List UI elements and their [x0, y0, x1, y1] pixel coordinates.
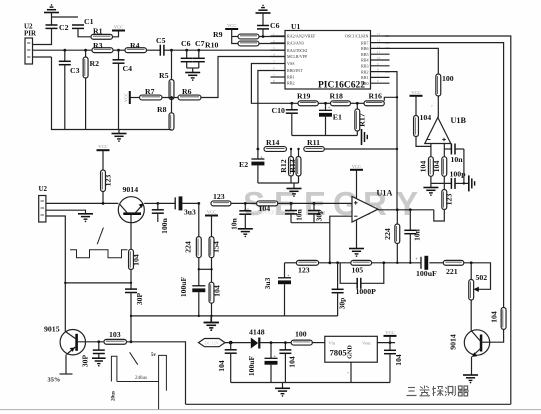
ground (U2 pin2): [78, 214, 93, 222]
wire 9014 collector chain down: [65, 282, 131, 284]
svg-text:C7: C7: [195, 39, 205, 48]
svg-text:VCC: VCC: [207, 210, 216, 215]
svg-text:R17: R17: [358, 113, 367, 127]
node ref/224: [396, 262, 398, 264]
capacitor 100p: [431, 170, 466, 189]
node C7: [197, 49, 200, 52]
svg-text:100: 100: [295, 330, 307, 339]
wire row y=50 to IC pin RA4: [172, 49, 286, 51]
VCC symbol (7805 out): [384, 330, 397, 343]
svg-text:1000P: 1000P: [356, 287, 377, 296]
wire 100 to U1B output: [431, 96, 438, 118]
capacitor 100uF (output coupling): [416, 256, 438, 278]
resistor R7: [130, 87, 162, 100]
svg-text:246us: 246us: [135, 376, 147, 381]
node R5/R6/R7/R8: [170, 96, 173, 99]
svg-text:3u3: 3u3: [184, 208, 196, 217]
svg-text:123: 123: [213, 192, 225, 201]
svg-text:104: 104: [217, 360, 226, 372]
resistor 224 (to 100uF): [184, 203, 202, 257]
capacitor 100n: [152, 203, 169, 233]
capacitor 30p (ref): [332, 263, 347, 316]
resistor 123 (U1B plus): [442, 176, 454, 209]
svg-text:502: 502: [476, 273, 488, 282]
svg-text:104: 104: [420, 113, 432, 122]
svg-text:9015: 9015: [44, 325, 60, 334]
capacitor C6: [181, 39, 193, 68]
wire reference row: [285, 263, 491, 290]
node rail/100uF: [198, 315, 200, 317]
capacitor 104 (post-reg): [384, 343, 403, 383]
capacitor E2 (electrolytic): [239, 149, 264, 183]
node R14/E2: [257, 148, 260, 151]
resistor R12: [279, 149, 294, 176]
capacitor 100uF (emitter filter): [179, 277, 205, 316]
capacitor 10n (to ground): [230, 203, 252, 230]
node E1: [324, 102, 327, 105]
ground (R17, rotated): [362, 129, 368, 145]
svg-text:224: 224: [383, 228, 392, 240]
svg-text:C5: C5: [156, 36, 166, 45]
node R13 top: [297, 148, 299, 150]
node 30p: [313, 202, 316, 205]
svg-text:RB2: RB2: [287, 81, 295, 86]
svg-text:224: 224: [184, 241, 193, 253]
svg-text:104: 104: [259, 204, 271, 213]
svg-text:30p: 30p: [315, 210, 324, 222]
svg-text:DC 12V: DC 12V: [205, 341, 219, 346]
wire PIR pin1 to C2: [33, 28, 52, 44]
ground (Q3 emitter): [463, 357, 478, 384]
svg-text:R3: R3: [93, 41, 103, 50]
node pot top: [470, 261, 473, 264]
node minus-join: [328, 261, 331, 264]
svg-text:RB1: RB1: [287, 75, 295, 80]
VCC symbol (123 bias): [97, 144, 110, 150]
svg-text:U1: U1: [291, 22, 300, 31]
svg-text:R18: R18: [330, 91, 344, 100]
wire 103 to bottom rail: [127, 342, 186, 405]
resistor R17: [355, 103, 367, 135]
VCC symbol (R9/R10): [225, 23, 238, 29]
svg-text:3u3: 3u3: [263, 277, 272, 289]
wire R11 to bus: [324, 148, 397, 150]
svg-text:VCC: VCC: [98, 144, 107, 149]
ground (mid rail): [204, 316, 219, 331]
resistor 221: [443, 260, 464, 276]
node 123/base: [102, 202, 105, 205]
resistor R10: [205, 41, 259, 50]
svg-text:R12: R12: [279, 159, 288, 173]
svg-text:103: 103: [109, 330, 121, 339]
wire R1 to VCC: [113, 31, 119, 37]
ground (100p, rotated): [469, 175, 475, 191]
svg-text:VCC: VCC: [227, 23, 236, 28]
capacitor 10n (mid): [285, 203, 304, 222]
wire IC RB6 down to resistor 100: [385, 48, 438, 74]
node 100n: [156, 202, 159, 205]
svg-text:104: 104: [288, 356, 297, 368]
ground (30P): [92, 358, 106, 366]
op-amp U1A: [352, 188, 393, 222]
node join 224/154: [198, 268, 213, 270]
svg-text:RB7: RB7: [361, 40, 369, 45]
node 100p/bus: [463, 182, 465, 184]
node 105/1000P: [382, 261, 385, 264]
wire pot to 9014 Q3 base: [470, 300, 472, 331]
wire R6 up to IC pin MCLR: [201, 57, 285, 98]
resistor 104 (right rail): [490, 308, 507, 330]
svg-text:30P: 30P: [135, 293, 144, 306]
ground (10n): [238, 229, 253, 237]
ground (R12/R13): [287, 189, 302, 197]
wire R7-R6: [162, 97, 178, 99]
IC U1 PIC16C622: [271, 22, 390, 89]
svg-text:7: 7: [431, 104, 433, 108]
svg-text:10n: 10n: [295, 208, 304, 221]
wire R16 up to pin7 bus: [384, 97, 397, 100]
wire C10/E1/R17 bottom loop: [292, 135, 358, 137]
VCC symbol (R7, rotated): [123, 91, 130, 104]
svg-text:4148: 4148: [249, 328, 265, 337]
capacitor 10n (feedback): [404, 210, 421, 263]
node 224b: [396, 208, 399, 211]
wire C1 to R1: [78, 28, 91, 36]
wire ground rail y=129.5: [33, 57, 172, 130]
svg-text:Vout: Vout: [362, 341, 371, 346]
svg-text:R14: R14: [266, 138, 280, 147]
ground (U1A power): [349, 220, 364, 257]
wire Q3 collector to 104: [490, 329, 504, 342]
svg-text:E2: E2: [239, 160, 248, 169]
node C3: [63, 49, 66, 52]
svg-text:104: 104: [490, 311, 499, 323]
svg-text:104: 104: [213, 285, 222, 297]
resistor 154: [209, 216, 220, 258]
resistor R8: [157, 98, 174, 131]
node 104b: [284, 341, 287, 344]
node C4/R4: [117, 49, 120, 52]
resistor R14: [264, 138, 287, 151]
svg-text:RB2: RB2: [361, 69, 369, 74]
svg-text:R5: R5: [159, 71, 169, 80]
resistor R18: [330, 91, 351, 105]
ground (rail, under C4): [112, 130, 127, 142]
wire VCC to R9/R10: [232, 29, 238, 44]
svg-text:123: 123: [104, 175, 113, 187]
node 10nb: [409, 208, 412, 211]
capacitor C6 (top): [257, 21, 280, 37]
VCC symbol (U1B): [410, 90, 423, 96]
node rail/30P: [130, 315, 132, 317]
svg-text:+: +: [328, 106, 330, 110]
wire ground rail mid (y=316): [131, 315, 338, 317]
svg-text:104: 104: [419, 161, 428, 173]
node 100uF3: [270, 341, 273, 344]
VCC symbol (U1A): [350, 164, 363, 199]
svg-text:105: 105: [352, 266, 364, 275]
wire 7805 output: [377, 342, 395, 344]
wire R18-R16: [351, 102, 365, 104]
wire 104 to U1A plus input: [278, 202, 352, 204]
transistor 9015 (Q2): [44, 325, 86, 355]
svg-text:104: 104: [132, 254, 141, 266]
op-amp U1B: [425, 116, 467, 144]
ground (C6/C7): [185, 73, 200, 81]
node C6a: [262, 35, 265, 38]
node chain/282: [64, 282, 132, 284]
VCC symbol (R1): [112, 25, 125, 31]
svg-text:R1: R1: [93, 27, 103, 36]
svg-text:RB1: RB1: [361, 75, 369, 80]
resistor R4: [125, 41, 147, 53]
node 30P-gnd: [97, 340, 100, 343]
svg-text:VSS: VSS: [287, 61, 295, 66]
wire 9015 base row: [78, 341, 104, 343]
wire R9 to IC pin1: [259, 36, 285, 38]
svg-text:*: *: [347, 372, 349, 376]
label 35% (emitter): [48, 374, 73, 384]
svg-text:9014: 9014: [449, 334, 458, 350]
node rail/104: [210, 315, 212, 317]
resistor 103: [104, 330, 127, 344]
wire 10n/100p right bus: [464, 149, 469, 183]
capacitor 3u3 (coupling): [158, 196, 199, 216]
transistor 9014 (Q1): [118, 185, 144, 223]
svg-text:VCC: VCC: [385, 330, 394, 335]
resistor 224 (feedback): [383, 210, 400, 263]
ground (above DC node): [204, 316, 219, 331]
svg-text:U2: U2: [39, 185, 48, 193]
resistor R16: [364, 91, 384, 105]
resistor 123 (bias): [101, 150, 113, 203]
wire main signal row y=50: [33, 49, 161, 51]
capacitor 1000P bridge: [340, 263, 384, 296]
resistor R11: [304, 138, 325, 151]
wire: [51, 17, 53, 25]
wire C5 to node: [164, 49, 172, 51]
wire 123 down to U1A output: [434, 210, 445, 222]
svg-text:104: 104: [432, 161, 441, 173]
connector DC 12V: [199, 339, 226, 347]
svg-text:C4: C4: [123, 64, 133, 73]
svg-text:100: 100: [442, 74, 454, 83]
wire U1A output row: [378, 209, 434, 211]
svg-text:12: 12: [377, 44, 381, 48]
svg-text:10n: 10n: [230, 217, 239, 230]
transistor 9014 (Q3): [449, 330, 490, 357]
capacitor E1 (electrolytic): [319, 103, 342, 135]
wire U1A minus input loop: [330, 216, 352, 263]
svg-text:C10: C10: [272, 106, 286, 115]
wire 9015 emitter: [65, 355, 67, 374]
wire diode to 7805: [260, 342, 324, 344]
svg-text:RB3: RB3: [361, 64, 369, 69]
annotation pulse waveform: [111, 353, 167, 410]
svg-text:221: 221: [446, 267, 458, 276]
resistor 104 (U1B plus): [432, 149, 447, 176]
svg-text:7805: 7805: [330, 348, 347, 358]
svg-text:Y: Y: [396, 185, 418, 222]
svg-text:VCC: VCC: [114, 25, 123, 30]
svg-text:RB6: RB6: [361, 46, 369, 51]
svg-text:R7: R7: [145, 87, 155, 96]
resistor 104 (U1B minus input): [414, 96, 432, 137]
node R2/R3: [84, 49, 87, 52]
ground (supply rail): [275, 383, 290, 397]
wire U2 pin3 down to 9015 collector: [46, 216, 65, 332]
svg-text:5v: 5v: [151, 353, 157, 358]
resistor 104 (series): [257, 201, 278, 213]
resistor 123 (ref row): [296, 260, 318, 274]
capacitor 104 (DC input): [217, 343, 237, 383]
capacitor 30p: [308, 203, 324, 222]
connector U2 (second): [39, 185, 48, 222]
capacitor C5: [156, 36, 166, 56]
svg-text:C3: C3: [70, 66, 80, 75]
svg-text:R13: R13: [288, 159, 297, 173]
capacitor 10n (U1B plus): [444, 144, 464, 165]
wire IC pin5 down to R19 row: [251, 64, 298, 104]
resistor R5: [159, 50, 174, 99]
bottom page border line: [0, 409, 541, 411]
capacitor C7: [193, 39, 205, 68]
svg-text:100uF: 100uF: [416, 269, 437, 278]
annotation slash (near 103): [130, 352, 138, 364]
resistor R3: [92, 41, 113, 53]
node 30p/1000P: [336, 261, 339, 264]
capacitor C4: [113, 50, 133, 129]
svg-text:13: 13: [377, 39, 381, 43]
capacitor C2: [46, 23, 69, 32]
svg-text:10: 10: [377, 56, 381, 60]
svg-text:123: 123: [298, 266, 310, 275]
annotation slash (near base): [97, 228, 103, 245]
wire IC RB2 bus down (to R16/R11/U1A out): [385, 72, 397, 210]
resistor R13: [288, 149, 301, 176]
resistor R2: [83, 50, 99, 129]
svg-text:PIC16C622: PIC16C622: [318, 79, 366, 89]
svg-text:RA4/T0CKI: RA4/T0CKI: [287, 48, 308, 53]
ground (above C6a): [256, 5, 271, 26]
svg-text:PIR: PIR: [24, 29, 37, 37]
resistor R19: [297, 91, 318, 105]
svg-text:U1A: U1A: [377, 188, 393, 197]
svg-text:VCC: VCC: [411, 90, 420, 95]
potentiometer 502: [469, 263, 488, 300]
wire IC pin6 down to R14 row: [258, 71, 271, 150]
svg-text:U1B: U1B: [451, 116, 467, 125]
ground (top-left, above C2): [44, 4, 59, 17]
svg-text:C6: C6: [181, 39, 191, 48]
resistor 104 (to ground, U1B minus): [419, 146, 434, 176]
svg-text:R11: R11: [307, 138, 320, 147]
svg-text:RB5: RB5: [361, 52, 369, 57]
wire DC row: [225, 342, 251, 344]
node 103/chain: [130, 340, 133, 343]
regulator 7805: [325, 336, 378, 382]
wire C6-C7 join: [187, 68, 199, 73]
capacitor 104 (pre-reg): [279, 343, 296, 383]
wire E2/R12/R13 bottoms: [258, 176, 299, 189]
svg-text:17: 17: [377, 32, 381, 36]
capacitor C3: [59, 50, 80, 129]
node ref/10n: [409, 262, 411, 264]
wire IC RB7 to inner right rail: [385, 43, 504, 308]
svg-text:100uF: 100uF: [179, 277, 188, 298]
ground (U1B minus 104): [423, 176, 438, 196]
resistor 104 (emitter filter): [209, 282, 221, 303]
svg-text:9014: 9014: [123, 185, 139, 194]
node DC/104: [229, 341, 233, 345]
VCC symbol (154): [205, 210, 218, 216]
capacitor C10: [272, 103, 298, 135]
node 10n-gnd: [244, 202, 247, 205]
svg-text:RA3/AN3: RA3/AN3: [287, 41, 304, 46]
resistor 105: [351, 260, 372, 274]
svg-text:R19: R19: [297, 91, 311, 100]
svg-text:30P: 30P: [81, 355, 90, 368]
svg-text:OSC1/CLKIN: OSC1/CLKIN: [345, 34, 369, 39]
svg-text:E1: E1: [333, 113, 342, 122]
title text (Chinese): [407, 386, 470, 397]
resistor R6: [178, 87, 201, 100]
wire 10n/30p bottoms to minus node: [291, 222, 330, 224]
svg-text:VCC: VCC: [123, 93, 128, 102]
node C10: [290, 102, 293, 105]
resistor 104 (9014 base chain): [129, 215, 141, 283]
capacitor 3u3 (ref): [263, 263, 291, 316]
svg-text:20us: 20us: [111, 391, 117, 401]
svg-text:35%: 35%: [48, 377, 61, 384]
svg-text:R8: R8: [157, 105, 167, 114]
wire U2 pin2 to ground: [46, 210, 86, 214]
wire R10 to IC pin2: [259, 43, 285, 45]
wire U2 pin1 to 9014 base row: [46, 202, 119, 204]
svg-text:RA2/AN2/VREF: RA2/AN2/VREF: [287, 34, 316, 39]
wire 104 to U1B inverting input: [416, 137, 431, 147]
node 10n mid: [290, 202, 293, 205]
svg-text:R9: R9: [213, 30, 223, 39]
svg-text:154: 154: [212, 241, 221, 253]
svg-text:R6: R6: [182, 87, 192, 96]
resistor 100 (series supply): [291, 330, 312, 346]
svg-text:C6: C6: [270, 21, 280, 30]
diode 4148: [249, 328, 265, 349]
node 224 top: [197, 202, 200, 205]
connector U2 (PIR): [24, 23, 37, 65]
resistor R1: [91, 27, 113, 40]
svg-text:R4: R4: [130, 41, 140, 50]
capacitor C1: [72, 17, 94, 28]
svg-text:C1: C1: [84, 17, 94, 26]
svg-text:R2: R2: [90, 59, 100, 68]
resistor R9: [213, 30, 259, 39]
wire R19-R18: [318, 102, 330, 104]
svg-text:10n: 10n: [413, 228, 422, 241]
resistor 100 (U1B feedback): [436, 74, 454, 96]
node bus/R16: [396, 96, 398, 98]
svg-text:RB4: RB4: [361, 58, 369, 63]
capacitor 30P (to ground): [81, 342, 105, 367]
watermark text: [243, 185, 418, 222]
svg-text:10n: 10n: [451, 155, 464, 164]
capacitor 100uF (DC filter): [247, 343, 278, 383]
svg-text:30p: 30p: [338, 298, 347, 310]
wire 224/154 bottoms joined: [199, 258, 212, 316]
svg-text:Vin: Vin: [329, 341, 336, 346]
svg-text:11: 11: [377, 50, 380, 54]
